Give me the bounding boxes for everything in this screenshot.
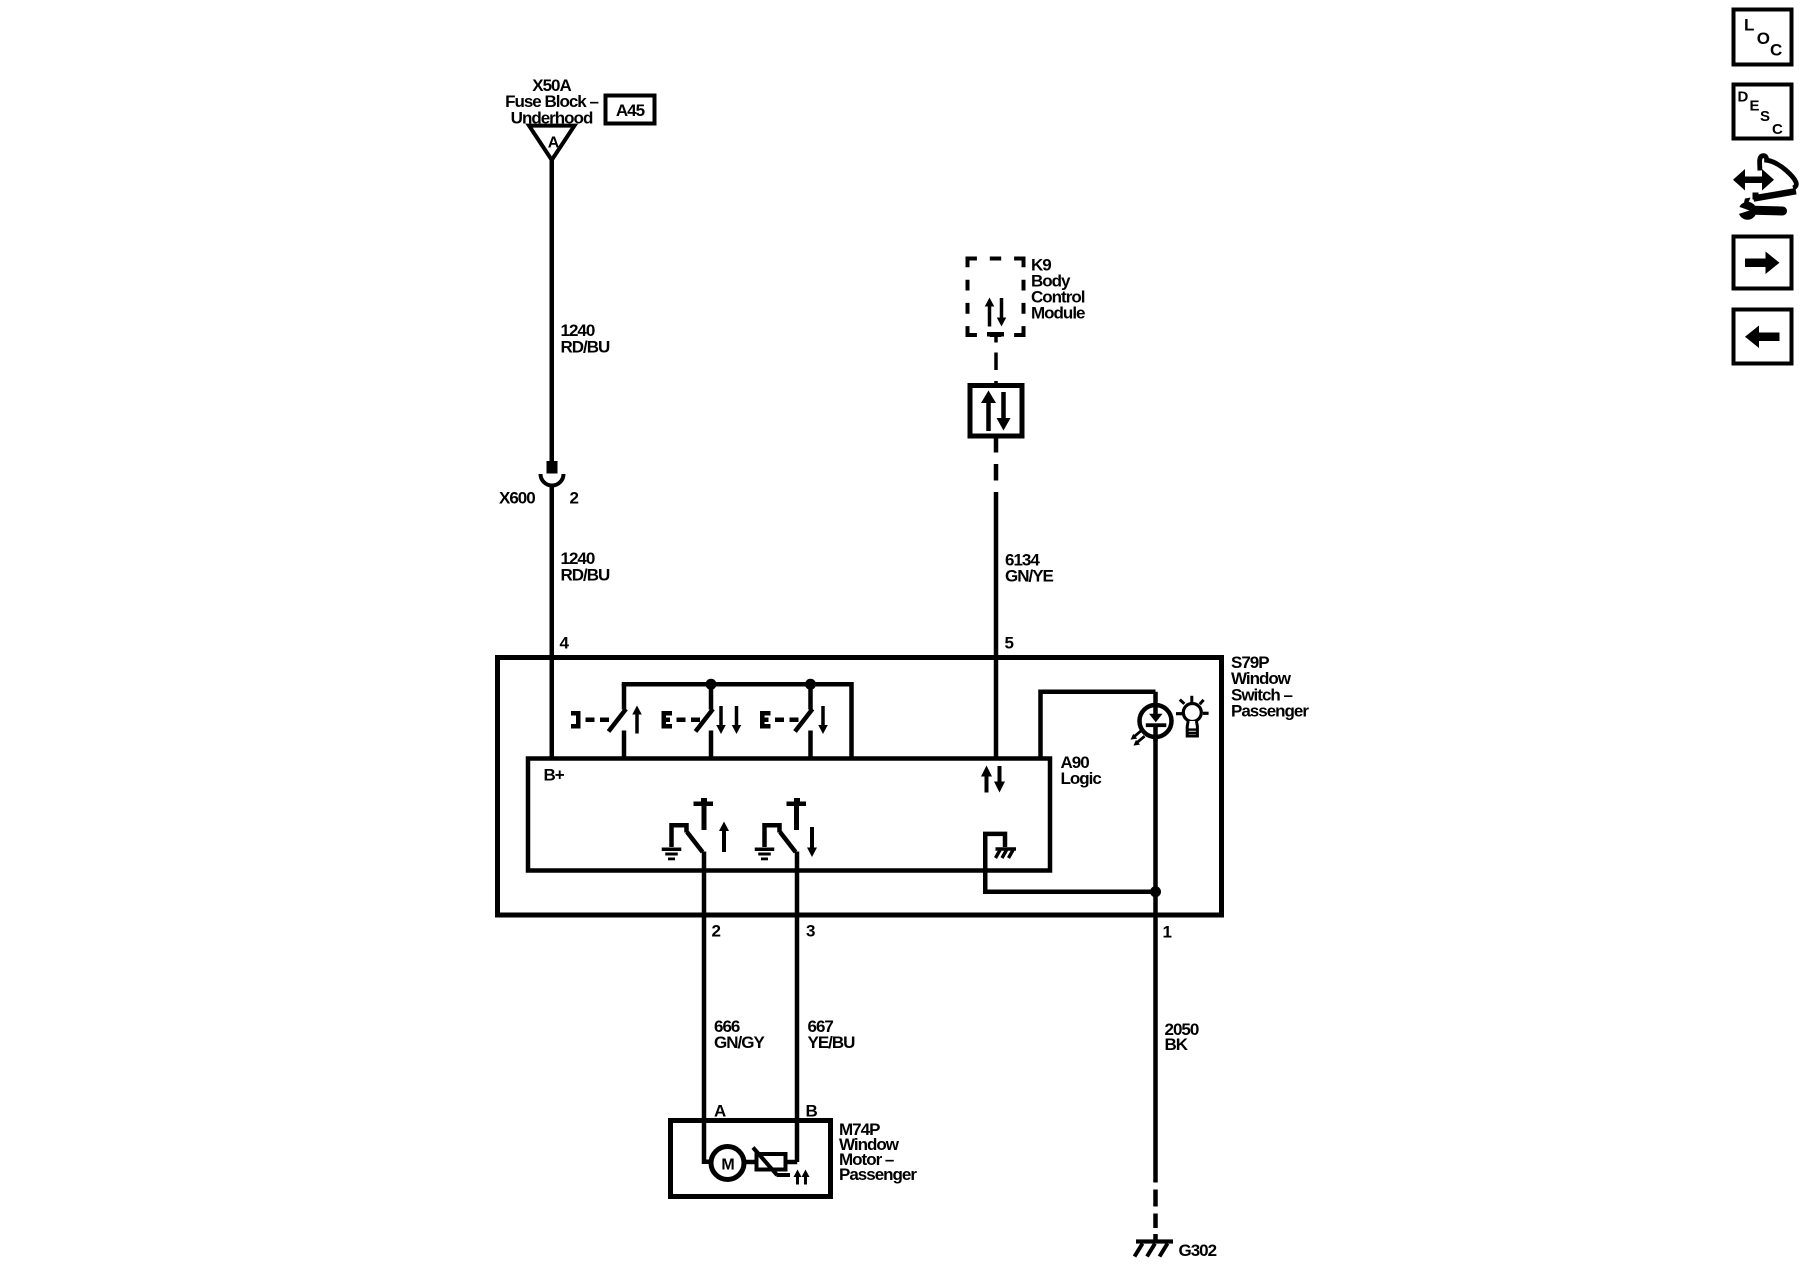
svg-text:L: L <box>1744 16 1754 35</box>
svg-text:B+: B+ <box>544 766 565 785</box>
svg-text:GN/YE: GN/YE <box>1005 567 1054 586</box>
svg-text:M: M <box>721 1157 734 1174</box>
svg-text:A: A <box>714 1102 726 1121</box>
svg-text:1: 1 <box>1163 923 1172 942</box>
svg-text:C: C <box>1770 41 1782 60</box>
svg-text:3: 3 <box>806 922 815 941</box>
svg-text:RD/BU: RD/BU <box>561 565 611 584</box>
svg-text:A: A <box>548 135 560 152</box>
svg-text:X600: X600 <box>499 489 535 508</box>
svg-text:Passenger: Passenger <box>1231 702 1309 721</box>
svg-text:Passenger: Passenger <box>839 1165 917 1184</box>
svg-text:Module: Module <box>1031 304 1085 323</box>
svg-text:B: B <box>806 1102 818 1121</box>
svg-text:Logic: Logic <box>1061 769 1102 788</box>
svg-text:BK: BK <box>1165 1035 1189 1054</box>
svg-text:S: S <box>1760 108 1770 125</box>
svg-text:RD/BU: RD/BU <box>561 337 611 356</box>
svg-text:G302: G302 <box>1179 1241 1217 1260</box>
svg-text:2: 2 <box>712 922 721 941</box>
svg-text:E: E <box>1750 98 1760 115</box>
svg-text:GN/GY: GN/GY <box>714 1033 765 1052</box>
svg-text:A45: A45 <box>616 101 645 120</box>
svg-text:5: 5 <box>1005 634 1014 653</box>
svg-text:D: D <box>1738 89 1749 106</box>
svg-text:2: 2 <box>570 489 579 508</box>
svg-text:YE/BU: YE/BU <box>808 1033 856 1052</box>
svg-text:C: C <box>1772 121 1783 138</box>
svg-text:O: O <box>1757 29 1770 48</box>
